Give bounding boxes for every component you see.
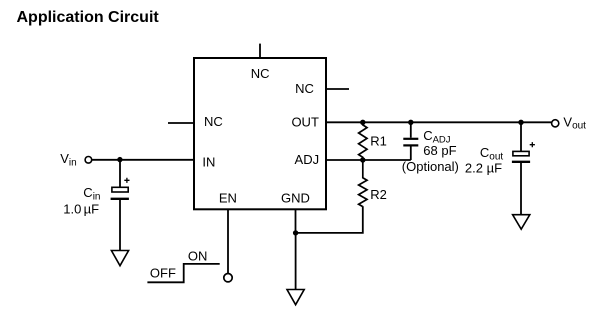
terminal EN (open circle)	[224, 274, 232, 282]
wire: Cout to ground	[520, 163, 522, 215]
enable waveform (OFF/ON step)	[147, 264, 219, 282]
svg-text:NC: NC	[204, 114, 223, 129]
svg-text:ON: ON	[188, 248, 208, 263]
junction: IN / Cin node	[117, 157, 122, 162]
wire: GND node to ground	[295, 233, 297, 290]
svg-text:1.0: 1.0	[63, 201, 81, 216]
junction: OUT / R1	[360, 120, 365, 125]
capacitor Cout (polarized)	[512, 142, 535, 162]
resistor R1	[359, 122, 367, 160]
wire: EN pin down	[227, 209, 229, 273]
ground symbol (Cin)	[111, 251, 128, 266]
wire: node to Cin	[119, 160, 121, 188]
wire: R2 to ground node	[296, 207, 363, 233]
svg-text:OFF: OFF	[150, 266, 176, 281]
svg-text:R1: R1	[370, 134, 387, 149]
wire: right NC stub	[326, 88, 349, 90]
wire: OUT to Cout	[520, 122, 522, 151]
wire: GND pin down	[295, 209, 297, 233]
svg-text:IN: IN	[202, 154, 215, 169]
svg-text:NC: NC	[251, 66, 270, 81]
svg-text:ADJ: ADJ	[295, 152, 320, 167]
svg-text:OUT: OUT	[291, 115, 319, 130]
junction: OUT / CADJ	[408, 120, 413, 125]
ground symbol (Cout)	[513, 215, 530, 230]
svg-text:EN: EN	[219, 190, 237, 205]
wire: top NC stub	[259, 44, 261, 58]
wire: Cin to ground	[119, 200, 121, 251]
capacitor Cin (polarized)	[111, 178, 130, 199]
svg-text:NC: NC	[295, 81, 314, 96]
wire: Vin to IN pin	[92, 159, 194, 161]
svg-text:GND: GND	[281, 190, 310, 205]
resistor R2	[359, 160, 367, 207]
terminal Vout	[552, 120, 559, 127]
svg-text:68 pF: 68 pF	[423, 143, 456, 158]
capacitor CADJ	[403, 122, 418, 160]
svg-text:µF: µF	[84, 201, 99, 216]
svg-text:2.2: 2.2	[465, 160, 483, 175]
ground symbol (GND)	[287, 290, 304, 305]
terminal Vin	[85, 157, 92, 164]
regulator IC U1 (body)	[194, 58, 326, 209]
wire: ADJ pin to CADJ	[326, 159, 411, 161]
junction: OUT / Cout	[518, 120, 523, 125]
junction: ADJ / R1 / R2	[360, 157, 365, 162]
svg-text:(Optional): (Optional)	[402, 159, 459, 174]
wire: OUT net (OUT pin to Vout)	[326, 121, 551, 123]
svg-text:Application Circuit: Application Circuit	[17, 9, 160, 26]
svg-text:R2: R2	[370, 187, 387, 202]
junction: GND node	[293, 230, 298, 235]
wire: left NC stub	[168, 122, 194, 124]
svg-text:µF: µF	[487, 160, 502, 175]
